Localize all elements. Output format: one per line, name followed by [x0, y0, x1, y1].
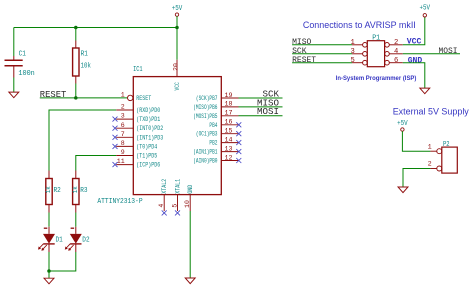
IC1 pin 4 XTAL2	[158, 179, 168, 216]
wire R3 to D2	[75, 213, 77, 227]
capacitor C1	[5, 51, 35, 78]
op IC1 ATTINY2313-P body	[97, 66, 221, 206]
wire +5V to P2 pin1	[402, 131, 430, 151]
svg-text:XTAL1: XTAL1	[174, 179, 181, 194]
wire IC1 pin 9 to R3	[76, 156, 116, 171]
svg-text:(RXD)PD0: (RXD)PD0	[136, 107, 160, 114]
junction LED commons	[47, 269, 51, 273]
node MOSI net label	[257, 106, 279, 117]
wire +5V vertical down to VCC pin	[176, 16, 178, 60]
node SCK net label	[263, 88, 280, 99]
IC1 pin 14 PB2	[209, 136, 241, 146]
connector P1 pin 4	[385, 48, 403, 56]
svg-text:PB4: PB4	[209, 122, 217, 129]
node MOSI net label right	[439, 47, 458, 56]
resistor R1 10k	[73, 41, 91, 84]
svg-text:RESET: RESET	[292, 56, 316, 65]
svg-text:17: 17	[225, 110, 233, 117]
svg-text:1k: 1k	[45, 186, 52, 193]
wire C1 to ground	[13, 78, 15, 92]
svg-text:10: 10	[184, 200, 191, 208]
svg-text:+5V: +5V	[397, 120, 408, 128]
svg-text:(AIN0)PB0: (AIN0)PB0	[193, 158, 218, 165]
node GND text	[408, 57, 423, 66]
IC1 pin 20 VCC	[173, 60, 182, 91]
wire rail down to C1	[13, 28, 15, 57]
wire R1 bottom to RESET net	[75, 84, 77, 98]
svg-text:External 5V Supply: External 5V Supply	[393, 107, 470, 117]
svg-text:IC1: IC1	[133, 66, 143, 74]
svg-text:P1: P1	[372, 34, 380, 42]
svg-text:12: 12	[225, 154, 233, 161]
svg-text:In-System Programmer (ISP): In-System Programmer (ISP)	[336, 75, 417, 82]
svg-text:(T1)PD5: (T1)PD5	[136, 153, 157, 160]
node VCC text	[407, 38, 422, 47]
svg-text:3: 3	[121, 113, 125, 120]
connector P1 pin 1	[350, 39, 367, 47]
wire D1 cathode down	[48, 252, 50, 271]
junction RESET / R1	[74, 96, 78, 100]
wire D2 cathode down and across	[49, 252, 76, 271]
IC1 pin 13 (AIN1)PB1	[193, 145, 241, 155]
wire IC1 pin 2 to R2	[49, 110, 116, 171]
IC1 pin 8 (T0)PD4	[113, 140, 158, 150]
wire RESET to P1 pin 5	[292, 62, 352, 64]
svg-text:1: 1	[428, 143, 432, 151]
IC1 pin 9 (T1)PD5	[116, 149, 157, 159]
connector P2 pin 1	[428, 143, 442, 153]
svg-text:1k: 1k	[72, 186, 79, 193]
svg-text:C1: C1	[19, 51, 26, 59]
wire P1 pin2 to +5V	[403, 17, 425, 45]
ground under P1	[420, 88, 430, 94]
IC1 pin 12 (AIN0)PB0	[193, 154, 241, 164]
IC1 pin 18 (MISO)PB6	[193, 101, 238, 111]
node +5V top-left power symbol	[172, 5, 183, 16]
svg-text:8: 8	[121, 140, 125, 147]
node MISO net label at P1	[292, 38, 311, 47]
svg-text:13: 13	[225, 145, 233, 152]
wire P1 pin6 to ground	[403, 63, 425, 88]
svg-text:SCK: SCK	[292, 47, 307, 56]
svg-text:2: 2	[394, 39, 398, 47]
svg-text:PB2: PB2	[209, 140, 217, 147]
wire +5V horizontal rail	[14, 27, 177, 29]
svg-text:(TXD)PD1: (TXD)PD1	[136, 116, 160, 123]
IC1 pin 2 (RXD)PD0	[116, 104, 160, 114]
wire P2 pin2 to ground	[403, 169, 430, 187]
svg-text:MISO: MISO	[292, 38, 311, 47]
IC1 pin 3 (TXD)PD1	[113, 113, 161, 123]
wire MOSI from IC1	[239, 115, 283, 117]
junction rail / R1 top	[74, 26, 78, 30]
wire R2 to D1	[48, 213, 50, 227]
node +5V power symbol at P1	[420, 5, 431, 18]
wire RESET to IC1 pin 1	[40, 97, 128, 99]
IC1 pin 5 XTAL1	[171, 179, 181, 216]
svg-text:3: 3	[350, 48, 354, 56]
svg-text:14: 14	[225, 136, 233, 143]
IC1 pin 1 RESET	[121, 92, 152, 102]
note Connections to AVRISP mkII	[303, 20, 416, 30]
connector P1 pin 5	[350, 57, 367, 65]
svg-text:(MISO)PB6: (MISO)PB6	[193, 104, 218, 111]
connector P1 pin 3	[350, 48, 367, 56]
svg-text:4: 4	[158, 204, 165, 208]
svg-text:10k: 10k	[81, 63, 91, 71]
svg-text:18: 18	[225, 101, 233, 108]
svg-text:4: 4	[394, 48, 398, 56]
wire SCK from IC1	[239, 97, 283, 99]
svg-text:5: 5	[171, 204, 178, 208]
svg-text:16: 16	[225, 119, 233, 126]
svg-text:MOSI: MOSI	[439, 47, 458, 56]
connector P2 pin 2	[428, 161, 442, 172]
svg-text:11: 11	[117, 158, 125, 165]
svg-text:RESET: RESET	[136, 95, 151, 102]
resistor R3 1k	[72, 171, 88, 213]
svg-text:19: 19	[225, 92, 233, 99]
svg-text:GND: GND	[187, 185, 194, 194]
connector P1 body	[367, 34, 384, 66]
connector P1 pin 6	[385, 57, 403, 65]
svg-text:(ICP)PD6: (ICP)PD6	[136, 162, 160, 169]
wire IC1 GND pin to ground	[189, 211, 191, 278]
svg-text:D2: D2	[82, 237, 89, 245]
node MISO net label	[257, 97, 279, 108]
svg-text:D1: D1	[56, 237, 63, 245]
svg-text:15: 15	[225, 128, 233, 135]
node RESET net label	[40, 89, 67, 100]
connector P1 pin 2	[385, 39, 403, 47]
IC1 pin 16 PB4	[209, 119, 241, 129]
svg-text:(OC1)PB3: (OC1)PB3	[196, 131, 218, 138]
svg-text:MOSI: MOSI	[257, 106, 279, 117]
wire MISO from IC1	[239, 106, 283, 108]
svg-text:VCC: VCC	[174, 82, 181, 91]
LED D2	[65, 227, 90, 252]
svg-text:R2: R2	[54, 187, 61, 195]
svg-text:6: 6	[121, 122, 125, 129]
IC1 pin 7 (INT1)PD3	[113, 131, 164, 141]
svg-text:(INT0)PD2: (INT0)PD2	[136, 125, 163, 132]
connector P2 body	[442, 141, 458, 173]
note In-System Programmer (ISP)	[336, 75, 417, 82]
wire MISO to P1 pin 1	[292, 44, 352, 46]
svg-text:+5V: +5V	[420, 5, 431, 13]
svg-text:(T0)PD4: (T0)PD4	[136, 143, 157, 150]
wire SCK to P1 pin 3	[292, 53, 352, 55]
ground under C1	[9, 92, 19, 98]
svg-text:(AIN1)PB1: (AIN1)PB1	[193, 149, 218, 156]
svg-text:(MOSI)PB5: (MOSI)PB5	[193, 113, 218, 120]
ground under IC1	[185, 278, 195, 284]
IC1 pin 19 (SCK)PB7	[196, 92, 239, 102]
svg-text:7: 7	[121, 131, 125, 138]
svg-text:Connections to AVRISP mkII: Connections to AVRISP mkII	[303, 20, 416, 30]
wire MOSI from P1 pin4	[403, 53, 460, 55]
ground under P2	[398, 187, 408, 193]
wire junction to ground	[48, 271, 50, 278]
svg-text:100n: 100n	[18, 70, 34, 78]
IC1 pin 17 (MOSI)PB5	[193, 110, 238, 120]
svg-text:20: 20	[173, 63, 180, 71]
wire rail down to R1	[75, 28, 77, 41]
node SCK net label at P1	[292, 47, 307, 56]
svg-text:XTAL2: XTAL2	[161, 179, 168, 194]
svg-text:(SCK)PB7: (SCK)PB7	[196, 95, 218, 102]
svg-text:R3: R3	[80, 187, 87, 195]
svg-text:9: 9	[121, 149, 125, 156]
ground under LEDs	[44, 278, 54, 284]
node RESET net label at P1	[292, 56, 316, 65]
junction rail / VCC drop	[175, 26, 179, 30]
resistor R2 1k	[45, 171, 61, 213]
svg-text:5: 5	[350, 57, 354, 65]
svg-text:2: 2	[428, 161, 432, 169]
svg-text:6: 6	[394, 57, 398, 65]
IC1 pin 10 GND	[184, 185, 194, 211]
svg-text:ATTINY2313-P: ATTINY2313-P	[97, 198, 142, 206]
note External 5V Supply	[393, 107, 470, 117]
svg-text:(INT1)PD3: (INT1)PD3	[136, 134, 163, 141]
IC1 pin 15 (OC1)PB3	[196, 128, 241, 138]
LED D1	[38, 227, 63, 252]
node +5V power symbol external	[397, 120, 408, 131]
svg-text:2: 2	[121, 104, 125, 111]
svg-text:R1: R1	[81, 50, 88, 58]
svg-text:GND: GND	[408, 57, 423, 66]
svg-text:P2: P2	[443, 141, 450, 149]
IC1 pin 11 (ICP)PD6	[113, 158, 161, 168]
svg-text:+5V: +5V	[172, 5, 183, 13]
svg-text:1: 1	[121, 92, 125, 99]
IC1 pin 6 (INT0)PD2	[113, 122, 164, 132]
svg-text:1: 1	[350, 39, 354, 47]
